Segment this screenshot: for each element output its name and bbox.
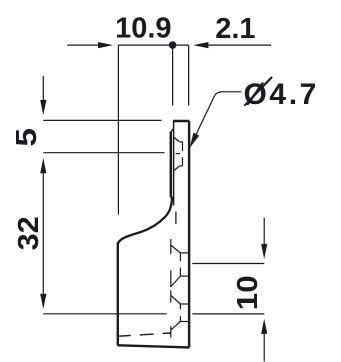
extension line 10 top bbox=[192, 263, 264, 265]
top hole bore end wall lower bbox=[182, 157, 184, 166]
flange outer line bbox=[170, 132, 172, 198]
top hole axis mark bbox=[176, 153, 181, 155]
dimension line between extension lines bbox=[118, 44, 188, 46]
hole2 upper face tick bbox=[170, 290, 172, 302]
part left edge lower bbox=[117, 242, 119, 346]
bottom hole 2 symbol bbox=[171, 290, 189, 337]
arrow down for 10 bbox=[261, 244, 267, 259]
hole2 lower chamfer diagonal bbox=[171, 322, 180, 330]
arrow left for 2.1 bbox=[193, 42, 208, 48]
extension line 10 bottom bbox=[192, 313, 264, 315]
svg-text:10.9: 10.9 bbox=[115, 12, 171, 44]
dimension 32 shaft bbox=[42, 173, 44, 294]
flange connector notch bbox=[171, 129, 174, 133]
dimension 10 upper shaft bbox=[263, 218, 265, 245]
hole2 bore end wall lower bbox=[179, 316, 181, 321]
leader line for diameter 4.7 bbox=[191, 92, 242, 146]
hole1 bore bottom bbox=[180, 275, 189, 277]
svg-text:10: 10 bbox=[232, 275, 264, 310]
extension line 5 top bbox=[43, 119, 161, 121]
top hole chamfer lower diagonal bbox=[174, 166, 180, 171]
hole1 upper chamfer diagonal bbox=[171, 245, 180, 253]
bottom hole 1 symbol bbox=[171, 239, 189, 287]
top hole bore top bbox=[180, 141, 183, 143]
hole2 upper chamfer diagonal bbox=[171, 296, 180, 304]
thin part lines bbox=[171, 121, 176, 224]
hole2 bore end wall upper bbox=[179, 304, 181, 309]
part bottom edge bbox=[118, 345, 190, 347]
part top edge bbox=[173, 120, 189, 122]
arrow down for 5 bbox=[40, 100, 46, 115]
dimension 2.1 line right shaft bbox=[208, 44, 271, 46]
arrow up for 10 bbox=[261, 319, 267, 334]
left face line bbox=[173, 121, 175, 206]
hole1 upper face tick bbox=[170, 239, 172, 254]
svg-text:32: 32 bbox=[13, 216, 45, 250]
svg-text:5: 5 bbox=[10, 128, 42, 147]
extension line right of 2.1 bbox=[188, 45, 190, 105]
dimension 10 lower shaft bbox=[263, 334, 265, 362]
dot node at 10.9/2.1 boundary bbox=[169, 41, 177, 49]
hole1 lower face tick bbox=[170, 270, 172, 287]
dimension 10.9 line left shaft bbox=[67, 44, 99, 46]
top hole bore end wall upper bbox=[182, 142, 184, 151]
part outline thick bbox=[118, 121, 190, 347]
svg-text:2.1: 2.1 bbox=[215, 13, 255, 45]
extension line 32 bottom bbox=[43, 313, 166, 315]
extension line 5 bottom / 32 top bbox=[43, 152, 164, 154]
top hole bore bottom bbox=[180, 165, 183, 167]
top hole chamfer upper diagonal bbox=[174, 137, 180, 142]
hole1 bore end wall lower bbox=[179, 268, 181, 277]
hole2 lower face tick bbox=[170, 326, 172, 337]
arrow down for 32 bottom bbox=[40, 294, 46, 309]
part S-curve bbox=[118, 197, 172, 246]
hole1 bore end wall upper bbox=[179, 253, 181, 261]
hole1 bore top bbox=[180, 252, 189, 254]
inner flange short line bbox=[175, 212, 177, 225]
part right edge bbox=[188, 121, 190, 347]
dimension 5 upper shaft bbox=[42, 76, 44, 100]
leader arrowhead bbox=[190, 133, 200, 148]
top hole symbol bbox=[174, 137, 183, 170]
arrow up for 32 top bbox=[40, 158, 46, 173]
extension line mid at dot bbox=[172, 45, 174, 105]
arrow right for 10.9 bbox=[98, 42, 113, 48]
hidden dashed line at bottom bbox=[117, 333, 171, 336]
diameter slash extension bbox=[244, 77, 272, 106]
hole2 bore top bbox=[180, 303, 189, 305]
extension line left of 10.9 bbox=[117, 45, 119, 214]
hole1 lower chamfer diagonal bbox=[171, 276, 180, 286]
hole2 bore bottom bbox=[180, 321, 189, 323]
